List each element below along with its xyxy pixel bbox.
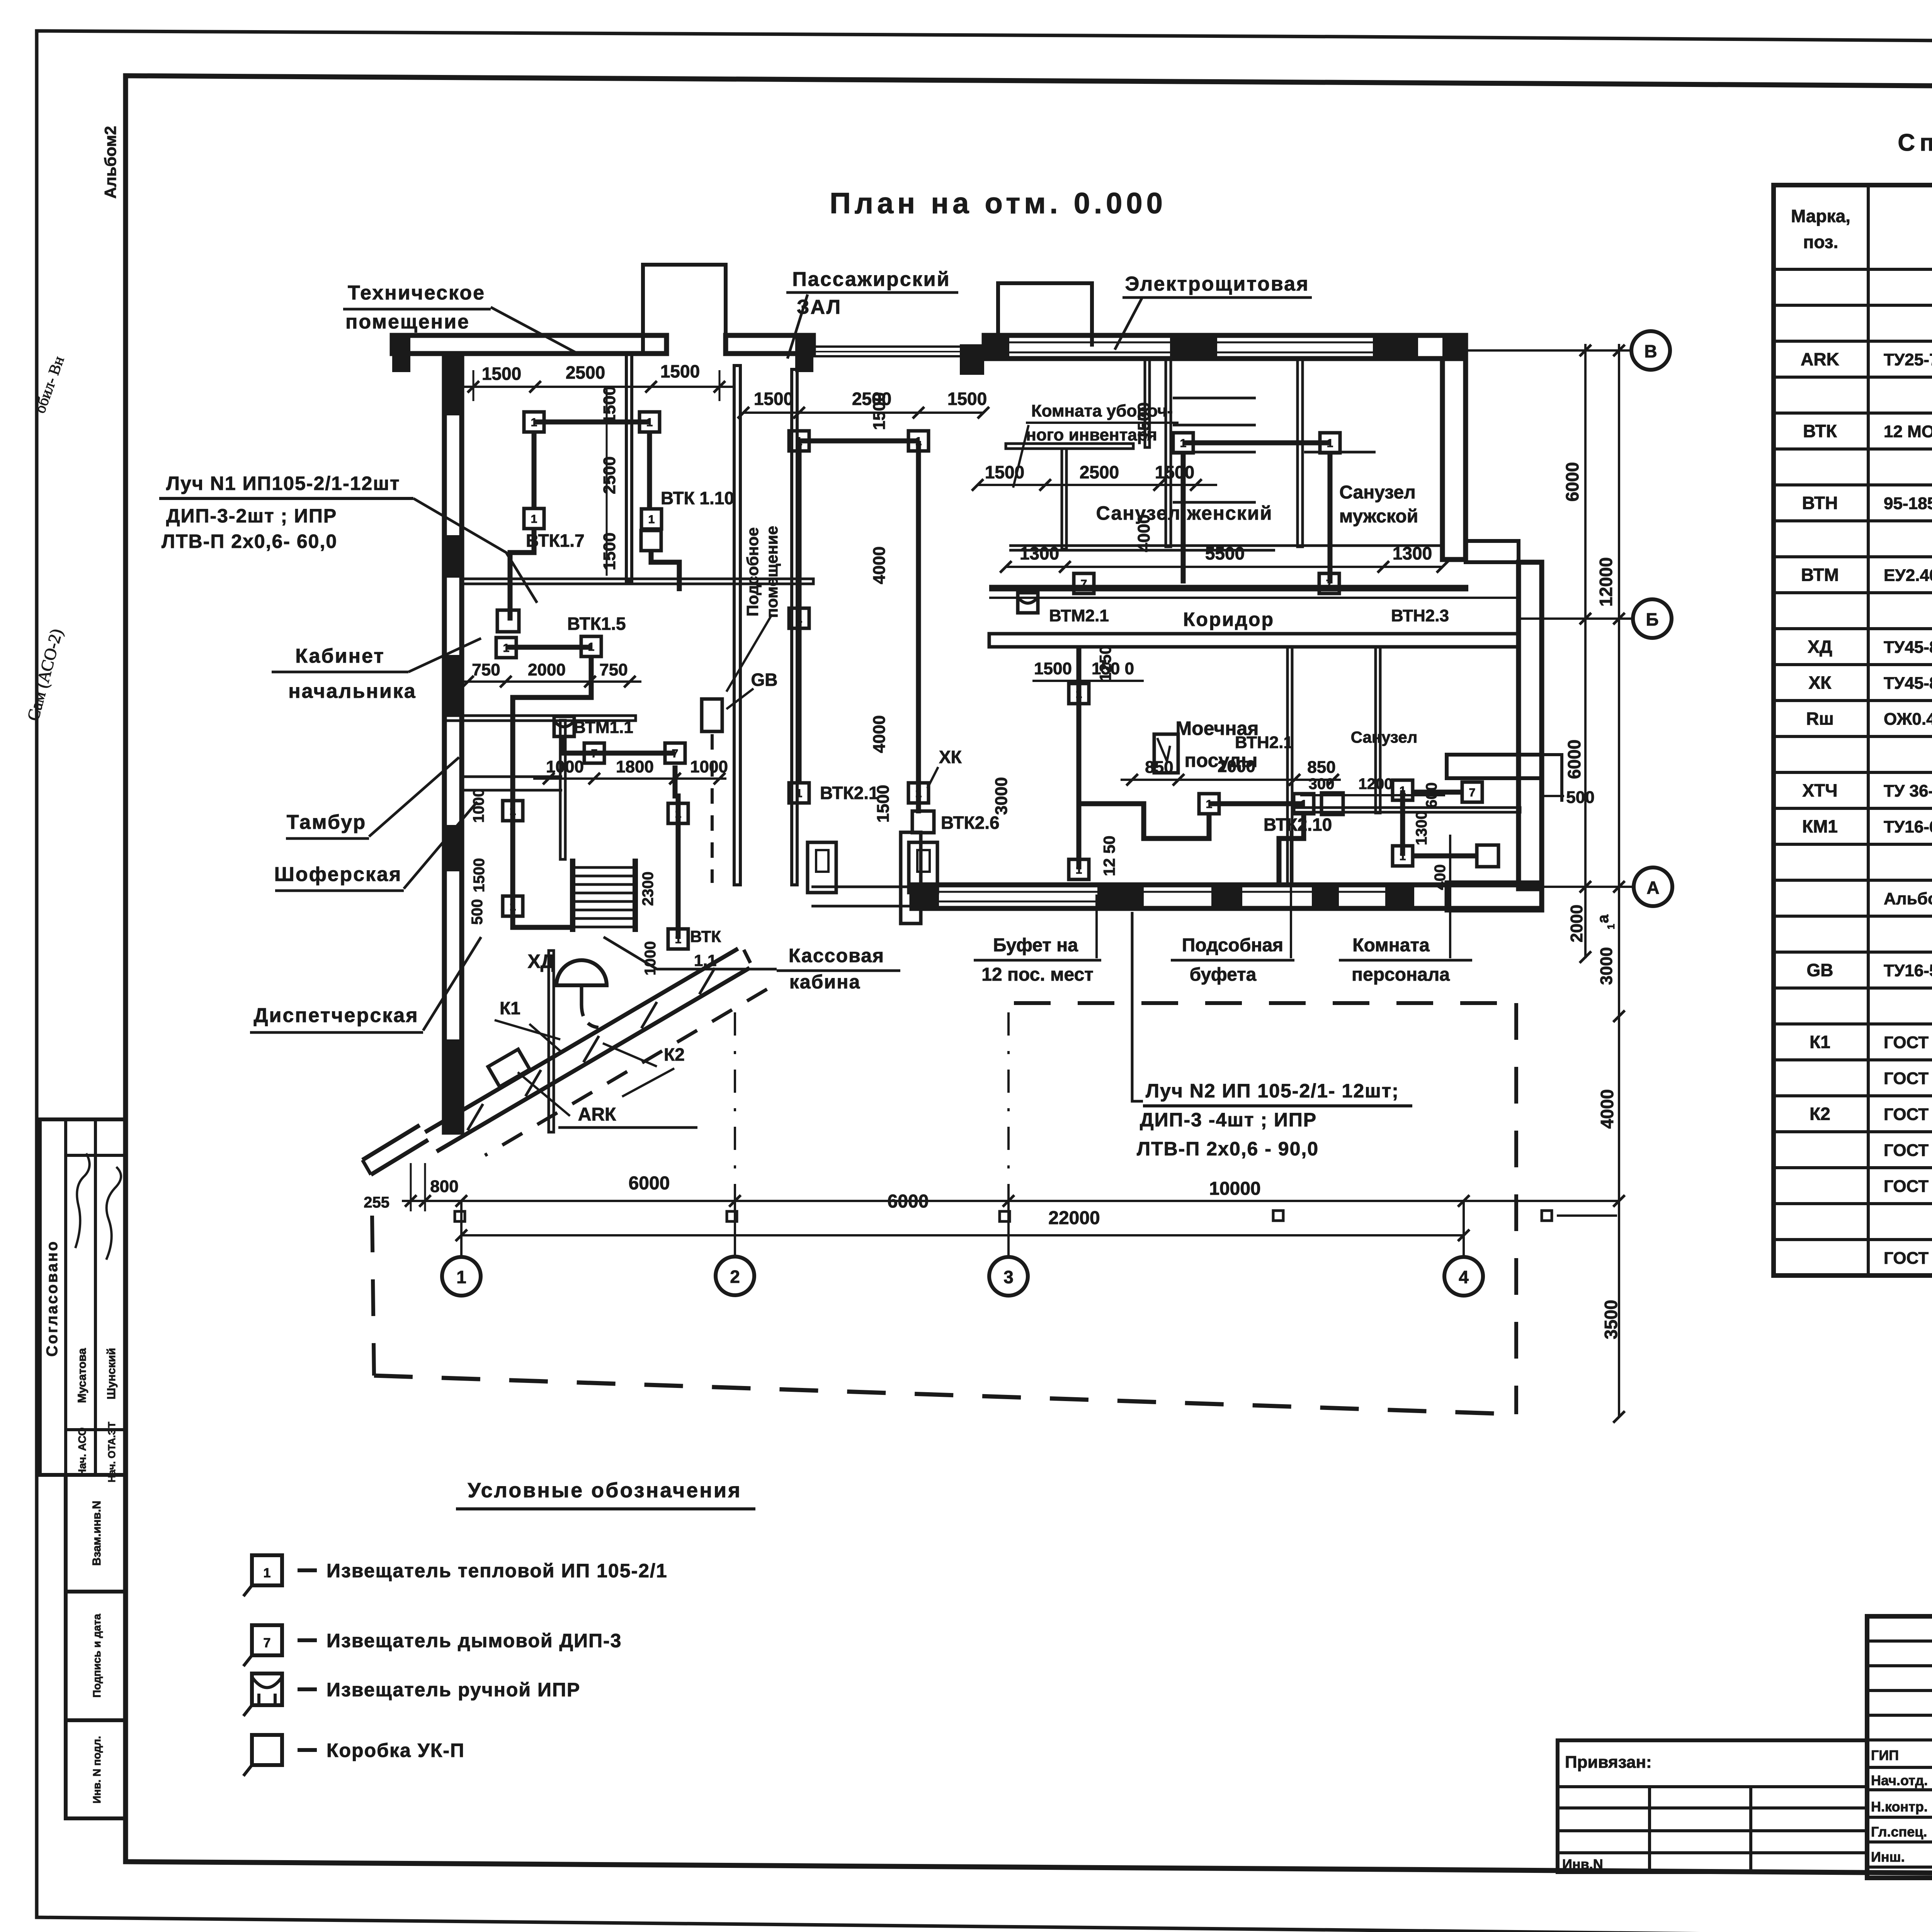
wall thin continuation bottom left <box>811 886 912 888</box>
dim line bufet <box>1121 779 1341 781</box>
svg-text:А: А <box>1646 878 1659 898</box>
box zal XK <box>912 811 934 833</box>
svg-text:ГОСТ 6323-79*Е: ГОСТ 6323-79*Е <box>1884 1141 1932 1160</box>
svg-text:Шоферская: Шоферская <box>274 863 402 886</box>
detector BTK1.9 <box>639 412 660 432</box>
svg-text:2: 2 <box>730 1267 740 1287</box>
svg-text:7: 7 <box>1081 578 1087 590</box>
svg-text:К2: К2 <box>664 1044 685 1065</box>
window band zal top <box>813 345 989 348</box>
staircase <box>570 859 575 932</box>
svg-text:К1: К1 <box>1810 1032 1830 1052</box>
svg-text:Кабинет: Кабинет <box>295 645 385 667</box>
svg-text:1: 1 <box>648 513 655 526</box>
dim line right inner <box>1584 344 1587 958</box>
dim line moechnaya <box>1032 680 1144 682</box>
svg-text:КМ1: КМ1 <box>1802 816 1838 837</box>
svg-text:Извещатель тепловой ИП 105-: Извещатель тепловой ИП 105-2/1 <box>327 1560 668 1582</box>
svg-text:Электрощитовая: Электрощитовая <box>1125 273 1310 295</box>
svg-text:2300: 2300 <box>639 872 656 906</box>
svg-text:1: 1 <box>503 642 510 655</box>
wire moechnaya column <box>1077 647 1082 869</box>
wire GB dashed down <box>711 734 714 883</box>
svg-text:850: 850 <box>1307 758 1335 777</box>
wire kabinet down <box>513 656 591 927</box>
box right of bufet det <box>1321 793 1343 815</box>
detector shoferskaya 2 <box>503 896 523 916</box>
legend dash 2 <box>298 1638 317 1642</box>
axis drop 3 <box>1007 1201 1010 1257</box>
wall fill blocks left exterior <box>444 354 462 415</box>
svg-text:ТУ16-644.001-83: ТУ16-644.001-83 <box>1884 818 1932 837</box>
svg-text:1300: 1300 <box>1393 543 1432 563</box>
svg-text:Диспетчерская: Диспетчерская <box>253 1004 418 1027</box>
svg-text:4000: 4000 <box>1134 514 1153 552</box>
dim line 300 1200 <box>1300 794 1445 796</box>
svg-text:300: 300 <box>1309 776 1335 793</box>
svg-text:1: 1 <box>1076 688 1082 701</box>
svg-text:ВТК 1.10: ВТК 1.10 <box>661 488 734 508</box>
stamp box Inv N podl <box>66 1720 126 1818</box>
specification table rows <box>1801 277 1932 1268</box>
wall komnata personala top <box>1447 755 1541 778</box>
svg-text:1500: 1500 <box>1034 659 1072 678</box>
svg-text:3500: 3500 <box>1601 1300 1621 1339</box>
wall chimney protrusion <box>643 265 726 354</box>
svg-text:4000: 4000 <box>870 546 889 584</box>
detector sanuzel lower 3 <box>1462 782 1482 802</box>
svg-text:ВТН2.1: ВТН2.1 <box>1235 733 1293 752</box>
svg-text:ВТМ1.1: ВТМ1.1 <box>573 718 633 737</box>
detector sanuzel lower 2 <box>1393 846 1413 866</box>
svg-text:1500: 1500 <box>660 361 700 381</box>
svg-text:поз.: поз. <box>1803 232 1838 252</box>
wall step right <box>1466 541 1519 562</box>
stamp signature Musatova <box>75 1153 90 1248</box>
svg-text:ТУ45-86 6е0.362.016ТУ: ТУ45-86 6е0.362.016ТУ <box>1884 638 1932 657</box>
svg-text:2000: 2000 <box>1567 905 1586 942</box>
svg-text:кабина: кабина <box>789 971 861 993</box>
dishwasher V box <box>1154 734 1178 773</box>
axis circle A <box>1634 867 1672 906</box>
svg-text:1: 1 <box>456 1267 466 1287</box>
wall right lower <box>1519 562 1542 889</box>
toilet partition stubs <box>1173 397 1256 400</box>
svg-text:ГОСТ 433-73*Е: ГОСТ 433-73*Е <box>1884 1105 1932 1124</box>
wire bufet left link <box>1079 804 1209 838</box>
svg-text:ВТМ2.1: ВТМ2.1 <box>1049 606 1109 625</box>
axis circle 1 <box>442 1257 481 1296</box>
legend symbol manual detector <box>252 1673 282 1705</box>
detector bufet 2 <box>1294 794 1314 814</box>
svg-text:ЛТВ-П 2х0,6- 60,0: ЛТВ-П 2х0,6- 60,0 <box>162 531 337 552</box>
smoke detector corridor 1 <box>1074 573 1094 594</box>
wire bufet drop <box>1279 814 1304 885</box>
svg-text:1: 1 <box>531 416 537 429</box>
svg-text:6000: 6000 <box>629 1173 670 1194</box>
corridor bottom wall <box>989 634 1519 647</box>
legend dash 1 <box>298 1568 317 1572</box>
stamp box Podpis i data <box>66 1592 126 1720</box>
svg-text:Коробка УК-П: Коробка УК-П <box>327 1740 465 1761</box>
svg-text:ХД: ХД <box>1808 637 1832 657</box>
svg-text:Альбом2: Альбом2 <box>101 126 119 199</box>
stamp block Soglasovano <box>40 1119 126 1475</box>
svg-text:1: 1 <box>675 933 682 946</box>
svg-text:1500: 1500 <box>471 858 488 893</box>
wall stub bufet left <box>901 832 921 923</box>
svg-text:План на отм. 0.000: План на отм. 0.000 <box>830 187 1167 220</box>
detector kabinet 1 <box>496 638 516 658</box>
axis circle B <box>1631 331 1670 370</box>
svg-text:6000: 6000 <box>888 1191 929 1212</box>
svg-text:ГОСТ 8133-77: ГОСТ 8133-77 <box>1884 1177 1932 1196</box>
smoke detector DIP left <box>584 743 604 763</box>
detector BTK1.10 <box>641 509 662 529</box>
wall bottom band <box>912 885 1542 908</box>
detector zal 2a <box>908 431 929 451</box>
svg-text:1: 1 <box>264 1566 271 1580</box>
svg-text:ВТН2.3: ВТН2.3 <box>1391 606 1449 625</box>
detector sanuzel lower 1 <box>1393 780 1413 800</box>
canopy lower band <box>371 1140 428 1175</box>
svg-text:1500: 1500 <box>1155 462 1194 482</box>
wire VTM row <box>562 736 567 753</box>
axis circle Bb <box>1633 599 1672 638</box>
svg-text:1: 1 <box>1076 864 1082 876</box>
svg-text:Инв. N подл.: Инв. N подл. <box>91 1736 103 1804</box>
legend dash 4 <box>298 1748 317 1752</box>
legend dash 3 <box>298 1687 317 1691</box>
wall sanuzel divider 3 <box>1298 359 1303 547</box>
svg-text:ARK: ARK <box>1801 349 1839 369</box>
svg-text:1: 1 <box>1301 798 1307 811</box>
svg-text:ВТК1.5: ВТК1.5 <box>567 614 626 634</box>
svg-text:2000: 2000 <box>528 660 566 679</box>
axis leader Bb <box>1519 617 1633 620</box>
wall top band right section <box>984 335 1466 359</box>
svg-text:1500: 1500 <box>754 389 793 409</box>
svg-text:Коридор: Коридор <box>1183 609 1274 630</box>
wall fill blocks bottom band <box>912 885 939 908</box>
leader ARK underline <box>558 1126 697 1129</box>
svg-text:1: 1 <box>796 435 803 448</box>
svg-text:Извещатель дымовой ДИП-3: Извещатель дымовой ДИП-3 <box>327 1630 622 1651</box>
manual call point VTM1.1 <box>554 716 574 736</box>
platform dashed left vertical <box>372 1216 374 1376</box>
svg-text:1500: 1500 <box>985 462 1024 482</box>
svg-text:2500: 2500 <box>566 362 605 383</box>
svg-text:1000: 1000 <box>470 789 487 823</box>
svg-text:3: 3 <box>1003 1267 1014 1287</box>
detector BTK1.7 <box>524 509 544 529</box>
svg-text:22000: 22000 <box>1048 1208 1100 1228</box>
svg-text:500: 500 <box>469 899 486 925</box>
wall pier zal right end <box>960 344 984 375</box>
wall top band left section <box>392 335 667 354</box>
detector rs 1 <box>1173 433 1193 453</box>
device pribor 2 <box>909 842 937 893</box>
svg-text:Шунский: Шунский <box>105 1348 118 1400</box>
svg-text:Подсобная: Подсобная <box>1182 935 1283 956</box>
dim line kabinet <box>462 680 641 683</box>
platform dashed bottom <box>374 1376 1516 1414</box>
dim line 1300 5500 1300 <box>1006 566 1442 568</box>
legend symbol heat detector <box>252 1555 282 1585</box>
svg-text:ХК: ХК <box>1809 673 1832 693</box>
svg-text:1: 1 <box>1400 850 1406 863</box>
svg-text:ТУ25-7709-001- 87: ТУ25-7709-001- 87 <box>1884 350 1932 369</box>
svg-text:1300: 1300 <box>1020 543 1059 563</box>
svg-text:1300: 1300 <box>1413 811 1430 845</box>
svg-text:1: 1 <box>915 435 922 448</box>
wire rs col 1 <box>1181 453 1186 583</box>
svg-text:Альбом N2 ТМП 00-0-6.88: Альбом N2 ТМП 00-0-6.88 <box>1884 889 1932 908</box>
svg-text:1: 1 <box>915 787 922 800</box>
svg-text:1800: 1800 <box>616 757 654 776</box>
detector shoferskaya 1 <box>503 801 523 821</box>
svg-text:400: 400 <box>1432 864 1449 890</box>
wall top band left-2 <box>726 335 813 354</box>
wall kabinet bottom <box>444 716 636 721</box>
svg-text:ВТК2.6: ВТК2.6 <box>941 813 1000 833</box>
wall sanuzel divider 2 <box>1166 359 1171 547</box>
svg-text:7: 7 <box>1469 786 1476 799</box>
wall tambur bottom <box>462 776 562 778</box>
svg-text:Rш: Rш <box>1806 709 1834 729</box>
detector bufet 1 <box>1199 794 1219 814</box>
svg-text:Комната: Комната <box>1352 935 1430 956</box>
svg-text:ДИП-3 -4шт ; ИПР: ДИП-3 -4шт ; ИПР <box>1140 1109 1317 1131</box>
axis centreline 2 dash <box>734 1012 736 1201</box>
wall right bottom corner block <box>1447 883 1542 910</box>
wire right of stairs <box>675 765 678 939</box>
wire rs col 2 <box>1328 453 1333 583</box>
svg-text:1: 1 <box>1327 437 1333 450</box>
wire drop BTK1.10 <box>647 432 652 509</box>
svg-text:3000: 3000 <box>1597 947 1616 985</box>
wire luch1 top row <box>534 420 650 425</box>
svg-text:ВТК2.1: ВТК2.1 <box>820 783 879 803</box>
dim line right outer <box>1618 344 1620 1417</box>
svg-text:Инш.: Инш. <box>1871 1849 1905 1865</box>
svg-text:ТУ16-563.040-86: ТУ16-563.040-86 <box>1884 961 1932 980</box>
detector rs 2 <box>1320 433 1340 453</box>
device ARK on canopy <box>488 1049 530 1087</box>
svg-text:800: 800 <box>430 1177 458 1196</box>
svg-text:7: 7 <box>1326 578 1333 590</box>
dim line top left section <box>462 386 734 388</box>
svg-text:помещение: помещение <box>345 311 470 333</box>
svg-text:ГОСТ 6323-79*Е: ГОСТ 6323-79*Е <box>1884 1249 1932 1268</box>
axis circle 3 <box>989 1257 1028 1296</box>
svg-text:12 МО 0 82. 033ТУ: 12 МО 0 82. 033ТУ <box>1884 422 1932 441</box>
svg-text:ВТМ: ВТМ <box>1801 565 1839 585</box>
svg-text:600: 600 <box>1423 782 1440 808</box>
svg-text:7: 7 <box>264 1636 271 1650</box>
svg-text:ДИП-3-2шт ; ИПР: ДИП-3-2шт ; ИПР <box>166 505 337 527</box>
wire kabinet row <box>506 645 591 650</box>
svg-text:ОЖ0.467.180ТУ: ОЖ0.467.180ТУ <box>1884 710 1932 729</box>
wire corridor drop left <box>1026 588 1031 593</box>
svg-text:1500: 1500 <box>600 386 619 424</box>
smoke detector corridor 2 <box>1319 573 1339 594</box>
wall sanuzel divider 1 <box>1062 449 1066 549</box>
svg-text:1: 1 <box>675 808 682 820</box>
svg-text:Подсобное: Подсобное <box>743 527 762 617</box>
legend symbol box UK-P <box>252 1735 282 1765</box>
kassa diagonal window ticks <box>468 1104 483 1130</box>
axis drop 4 <box>1463 1201 1465 1257</box>
stamp box Vzam inv N <box>66 1475 126 1592</box>
svg-text:6000: 6000 <box>1564 740 1584 779</box>
svg-text:1: 1 <box>1605 924 1617 929</box>
title block frame <box>1867 1616 1932 1878</box>
platform dashed right vertical <box>1514 1003 1518 1414</box>
svg-text:Извещатель ручной ИПР: Извещатель ручной ИПР <box>327 1679 580 1701</box>
svg-text:ВТК: ВТК <box>690 927 721 946</box>
svg-text:Санузел: Санузел <box>1339 482 1415 503</box>
svg-text:4000: 4000 <box>870 715 889 753</box>
svg-text:ЛТВ-П 2х0,6 - 90,0: ЛТВ-П 2х0,6 - 90,0 <box>1137 1138 1319 1160</box>
wire zal column 2 <box>916 441 921 813</box>
svg-text:Гл.спец.: Гл.спец. <box>1871 1824 1927 1840</box>
wire IPR down <box>651 551 679 591</box>
wall right upper <box>1442 359 1466 560</box>
svg-text:Согласовано: Согласовано <box>44 1240 61 1357</box>
svg-text:2500: 2500 <box>1080 462 1119 482</box>
svg-text:Спецификация: Спецификация <box>1898 129 1932 156</box>
svg-text:В: В <box>1644 341 1657 361</box>
svg-text:АRК: АRК <box>578 1104 616 1125</box>
svg-text:Луч N2 ИП 105-2/1- 12шт;: Луч N2 ИП 105-2/1- 12шт; <box>1146 1080 1399 1102</box>
svg-text:1500: 1500 <box>1134 402 1153 440</box>
svg-text:10000: 10000 <box>1209 1179 1260 1199</box>
wall pier top left end <box>392 335 410 372</box>
detector zal 1a <box>789 431 809 451</box>
detector moechnaya <box>1069 684 1089 704</box>
manual call point IPR zal <box>641 531 661 551</box>
svg-text:1: 1 <box>588 641 595 653</box>
axis leader A <box>1542 886 1634 888</box>
hd mushroom symbol <box>556 960 607 985</box>
axis drop 1 <box>460 1201 463 1257</box>
svg-text:Тамбур: Тамбур <box>287 811 367 833</box>
corridor top wall with circuit <box>989 585 1468 592</box>
detector zal 1c (BTK2.1) <box>789 783 809 803</box>
svg-text:1: 1 <box>1180 437 1187 450</box>
dim line right section top <box>978 484 1217 486</box>
smoke detector DIP right <box>665 743 685 763</box>
battery GB box <box>702 699 722 731</box>
svg-text:Привязан:: Привязан: <box>1565 1753 1652 1772</box>
wire sanuzel 7 link <box>1414 790 1462 795</box>
svg-text:персонала: персонала <box>1352 964 1450 985</box>
wall tambur right vertical <box>560 720 565 859</box>
svg-text:1000: 1000 <box>546 757 584 776</box>
svg-text:ХТЧ: ХТЧ <box>1802 781 1837 801</box>
wire bufet row <box>1209 801 1304 806</box>
svg-text:1000: 1000 <box>690 757 728 776</box>
dim line under VTM <box>533 777 726 780</box>
kassa dashed cable K1 <box>485 989 767 1155</box>
wall interior technical room right <box>626 354 632 582</box>
svg-text:ХД: ХД <box>528 951 554 972</box>
axis circle 4 <box>1444 1257 1483 1296</box>
wall sanuzel lower divider <box>1376 647 1380 813</box>
svg-text:1000: 1000 <box>642 941 659 976</box>
svg-text:1: 1 <box>510 805 516 818</box>
svg-text:ВТН: ВТН <box>1802 493 1838 513</box>
detector zal 1b <box>789 608 809 628</box>
device pribor 1 <box>808 842 836 893</box>
svg-text:850: 850 <box>1145 758 1173 777</box>
svg-text:Пассажирский: Пассажирский <box>792 268 950 291</box>
svg-text:Кассовая: Кассовая <box>789 945 884 966</box>
platform box link line <box>1557 1214 1617 1217</box>
svg-text:500: 500 <box>1566 788 1594 807</box>
svg-text:ТУ45-84 6е0.362.013ТУ: ТУ45-84 6е0.362.013ТУ <box>1884 674 1932 693</box>
svg-text:2500: 2500 <box>600 456 619 494</box>
manual call point VTM2.1 <box>1018 593 1038 613</box>
wire zal top row <box>799 439 918 444</box>
svg-text:255: 255 <box>364 1194 389 1211</box>
svg-text:4000: 4000 <box>1597 1089 1617 1129</box>
svg-text:7: 7 <box>591 747 598 760</box>
stamp signature Shunskiy <box>106 1167 121 1260</box>
wall left exterior <box>444 354 462 1132</box>
svg-text:1: 1 <box>510 900 516 913</box>
svg-text:мужской: мужской <box>1339 506 1418 527</box>
axis leader B <box>1466 349 1633 352</box>
svg-text:2000: 2000 <box>1218 757 1255 776</box>
detector near stairs top <box>668 803 688 823</box>
detector BTK1.8 <box>524 412 544 432</box>
wall interior room divider horizontal <box>462 579 813 584</box>
svg-text:К1: К1 <box>500 998 520 1018</box>
svg-text:4: 4 <box>1459 1267 1469 1287</box>
svg-text:3000: 3000 <box>992 777 1011 815</box>
box sanuzel <box>1477 845 1498 867</box>
wall interior podsobnoe left <box>734 366 740 885</box>
dim line zal top <box>743 412 983 414</box>
svg-text:ГИП: ГИП <box>1871 1747 1899 1763</box>
junction box kabinet <box>497 610 519 632</box>
axis centreline 3 dash <box>1007 1012 1010 1201</box>
specification table grid <box>1774 185 1932 1276</box>
svg-text:5500: 5500 <box>1205 543 1245 563</box>
svg-text:ХК: ХК <box>939 747 962 767</box>
detector BTK1.5 <box>581 636 601 656</box>
svg-text:Взам.инв.N: Взам.инв.N <box>90 1501 103 1566</box>
svg-text:Мусатова: Мусатова <box>76 1348 88 1403</box>
svg-text:Санузел: Санузел <box>1351 728 1418 746</box>
svg-text:750: 750 <box>599 660 628 679</box>
svg-text:1: 1 <box>531 513 537 526</box>
bottom dim line 22000 <box>461 1234 1464 1236</box>
privyazan block <box>1558 1740 1867 1872</box>
detector moechnaya 2 <box>1069 859 1089 879</box>
detector zal 2b <box>908 783 929 803</box>
wire luch1 to kabinet <box>510 529 534 621</box>
wire zal column 1 <box>797 441 802 784</box>
svg-text:Буфет на: Буфет на <box>993 935 1078 956</box>
svg-text:1: 1 <box>1206 798 1213 811</box>
platform dashed top right <box>1014 1001 1516 1005</box>
wall hook right <box>1542 755 1562 802</box>
svg-text:ВТК: ВТК <box>1803 421 1837 441</box>
svg-text:12000: 12000 <box>1596 557 1616 607</box>
